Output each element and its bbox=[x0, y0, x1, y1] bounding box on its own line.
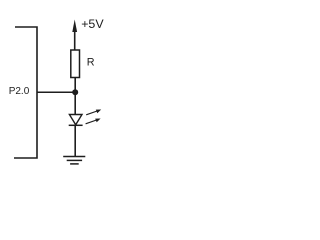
node A (junction dot) bbox=[72, 89, 78, 95]
LED cathode bar bbox=[69, 124, 83, 126]
svg-text:+5V: +5V bbox=[81, 17, 104, 31]
wire resistor to node A bbox=[74, 78, 76, 93]
svg-text:P2.0: P2.0 bbox=[9, 86, 30, 97]
wire LED cathode to ground bbox=[74, 125, 76, 156]
microcontroller U1 (partial box, port side) bbox=[14, 27, 37, 158]
LED D1 triangle bbox=[69, 115, 82, 125]
ground bbox=[63, 157, 85, 164]
wire node A to LED anode bbox=[74, 92, 76, 114]
LED emission arrow upper bbox=[86, 110, 101, 115]
wire P2.0 to node A bbox=[37, 91, 75, 93]
+5V power arrow bbox=[72, 20, 77, 51]
LED emission arrow lower bbox=[86, 119, 101, 124]
svg-text:R: R bbox=[87, 56, 95, 68]
resistor R bbox=[71, 50, 80, 78]
